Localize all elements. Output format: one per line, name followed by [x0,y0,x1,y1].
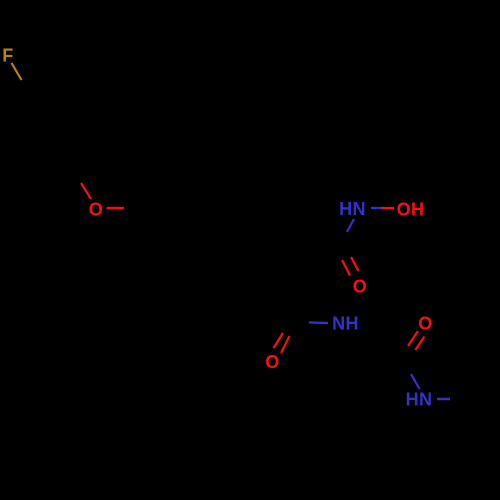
double bond C3=O6 (oxygen halves) [408,331,418,346]
svg-text:O: O [265,352,279,372]
svg-text:O: O [418,314,432,334]
bond N3-CH3 (nitrogen half, horizontal) [437,398,450,401]
svg-text:NH: NH [332,314,359,334]
double bond C2=O5 (oxygen halves) [274,333,284,348]
bond F1-C (fluorine half) [12,63,22,80]
svg-text:O: O [89,200,103,220]
bond C2-N2 amide (nitrogen half, horizontal) [309,321,328,324]
bond N1-O3 (oxygen half) [381,207,394,209]
bond C-O2 (ether oxygen half, diagonal) [81,183,91,199]
svg-text:HN: HN [406,390,433,410]
svg-text:F: F [2,46,13,66]
bond O2-C (ether oxygen half, horizontal) [107,207,125,209]
bond N1-O3 (nitrogen half) [371,207,381,209]
double bond C1=O4 (oxygen halves) [342,260,350,276]
svg-text:HN: HN [339,199,366,219]
bond N1-C1 carbonyl (nitrogen half, diagonal) [347,219,354,232]
bond C3-N3 (nitrogen half, diagonal) [411,374,420,389]
svg-text:OH: OH [397,200,425,220]
svg-text:O: O [353,277,367,297]
